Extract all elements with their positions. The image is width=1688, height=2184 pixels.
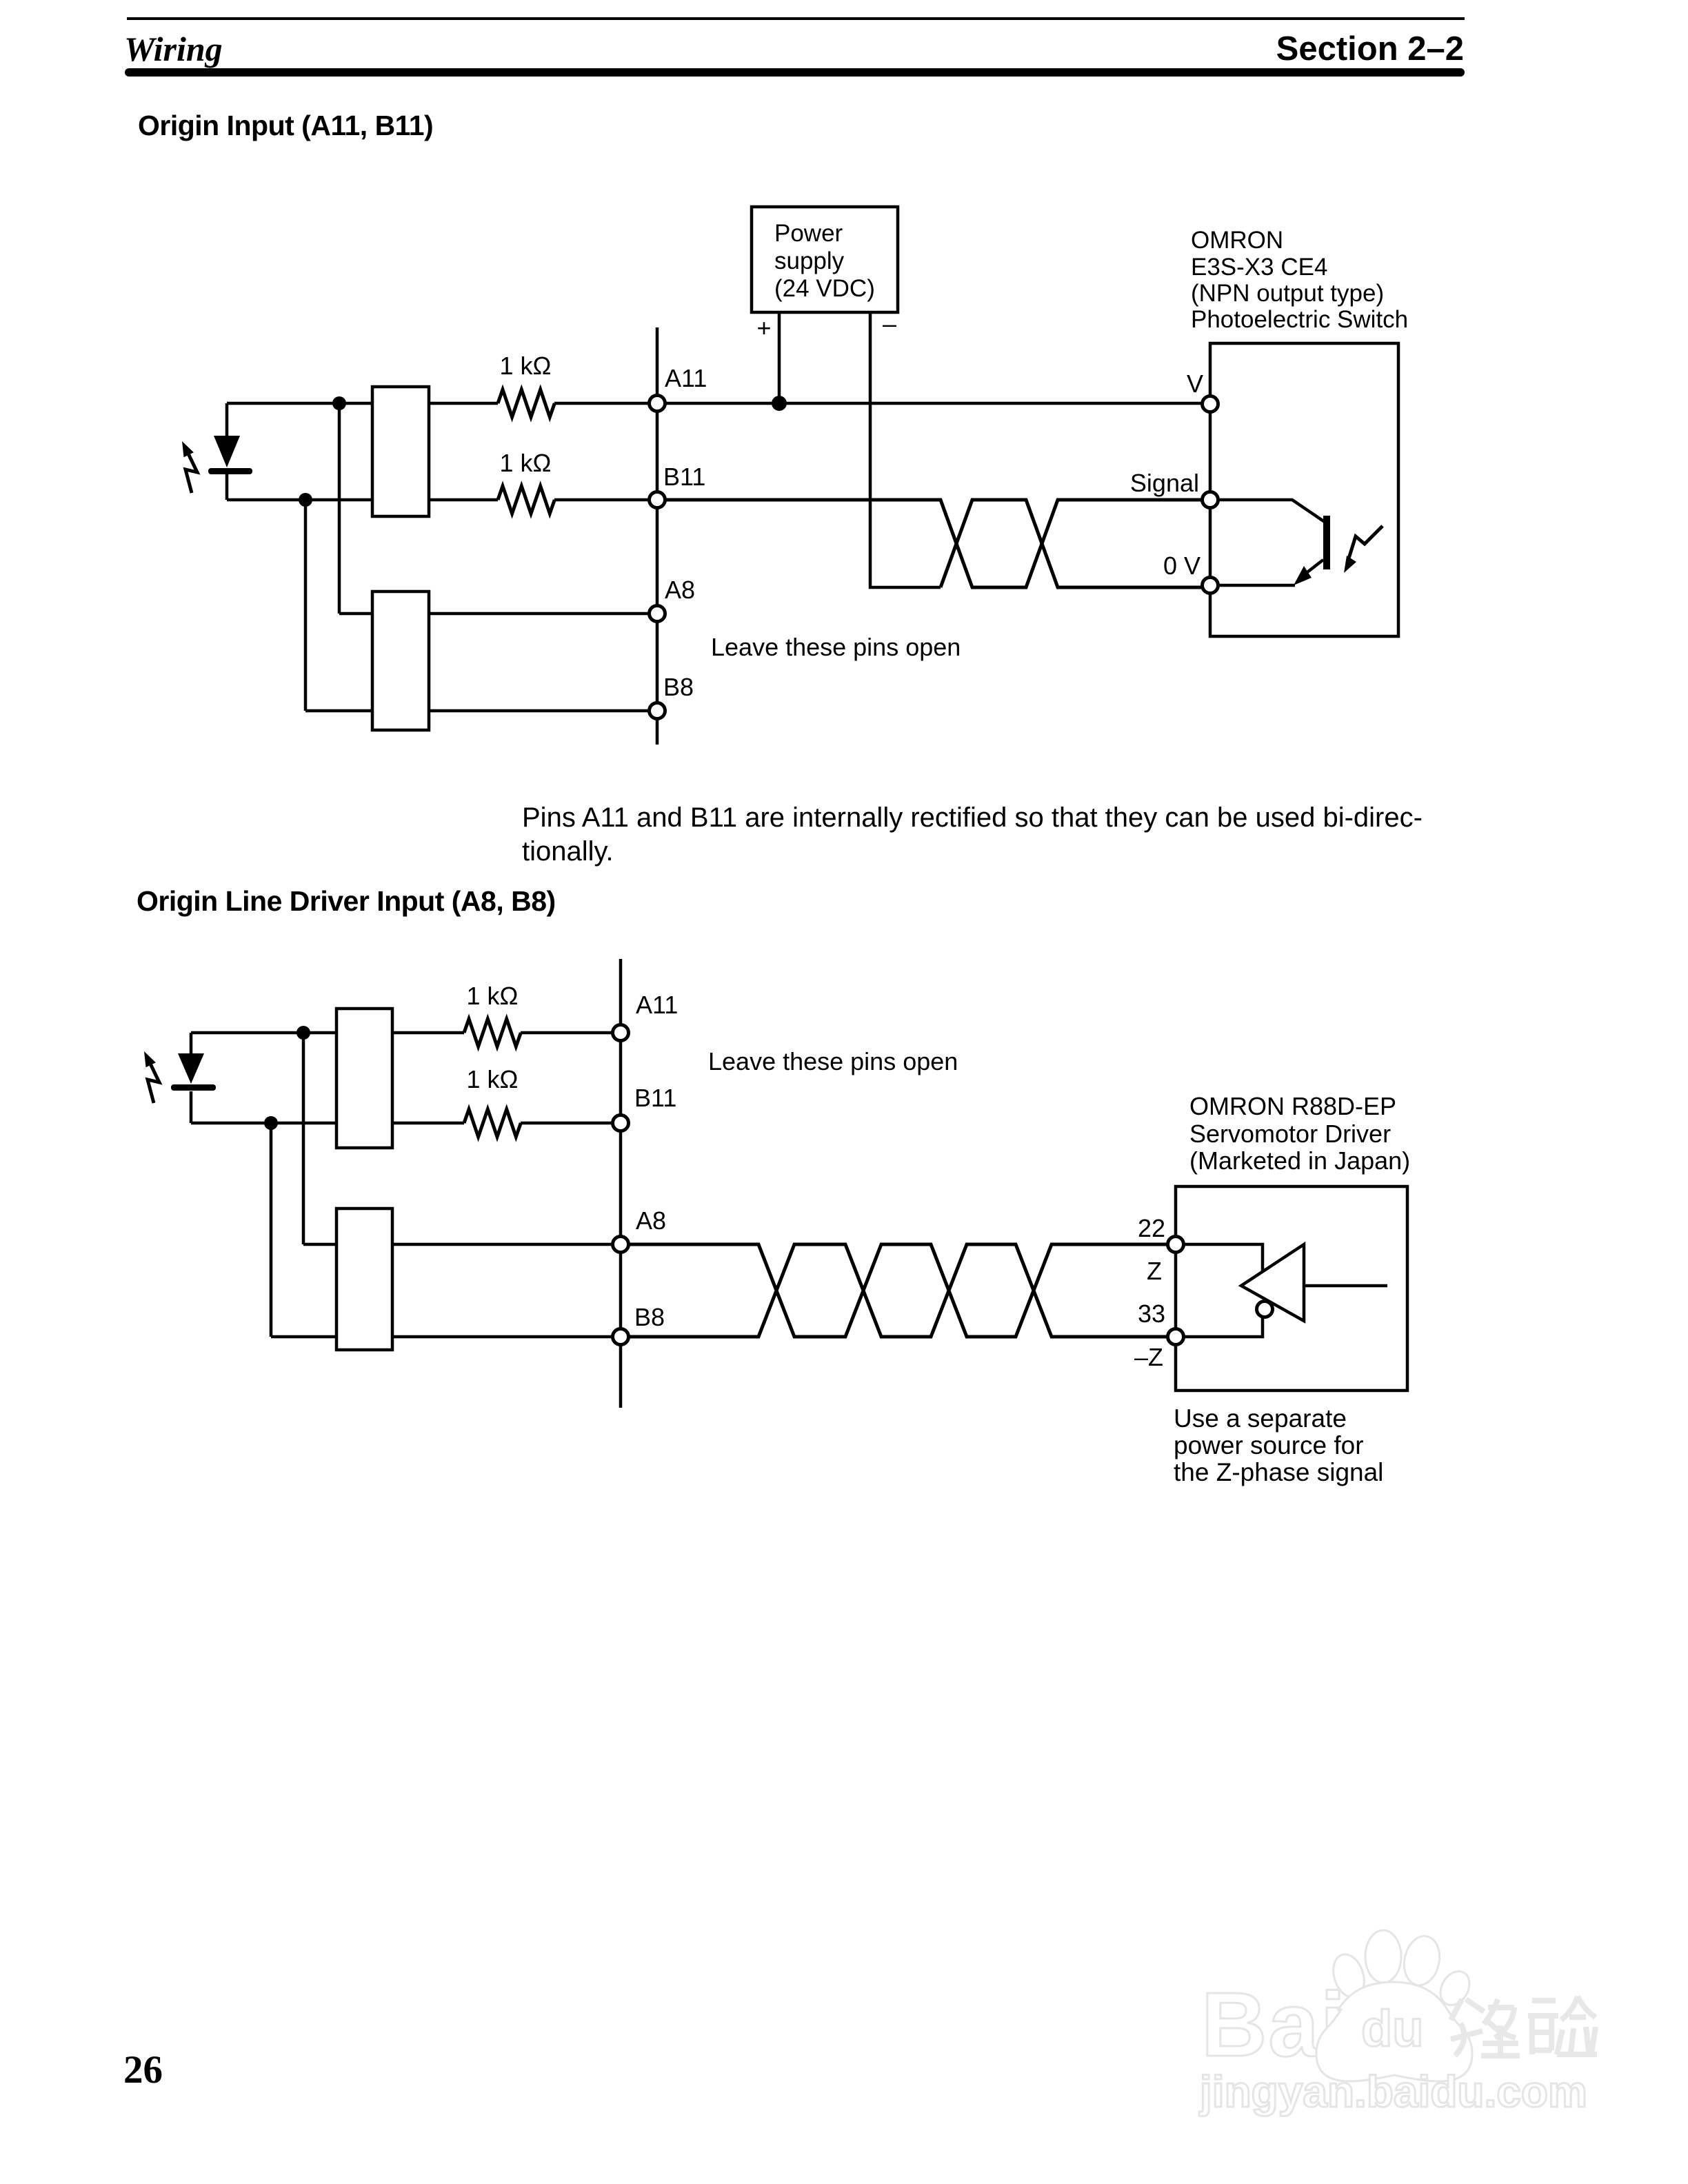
svg-text:Photoelectric Switch: Photoelectric Switch (1191, 306, 1408, 333)
svg-text:supply: supply (774, 247, 845, 274)
svg-text:A11: A11 (665, 364, 707, 392)
svg-text:Wiring: Wiring (124, 30, 223, 68)
svg-text:A8: A8 (665, 576, 695, 604)
svg-text:(NPN output type): (NPN output type) (1191, 280, 1384, 307)
svg-text:B11: B11 (634, 1084, 676, 1112)
svg-text:Signal: Signal (1130, 469, 1199, 497)
svg-text:33: 33 (1138, 1300, 1165, 1328)
svg-text:Power: Power (774, 220, 843, 247)
svg-text:Leave these pins open: Leave these pins open (711, 633, 961, 661)
svg-text:Use a separate: Use a separate (1174, 1404, 1347, 1433)
svg-text:(24 VDC): (24 VDC) (774, 275, 875, 302)
svg-text:1 kΩ: 1 kΩ (467, 982, 519, 1010)
svg-text:A11: A11 (636, 991, 678, 1019)
svg-text:26: 26 (123, 2048, 163, 2092)
svg-text:Pins A11 and B11 are internall: Pins A11 and B11 are internally rectifie… (522, 802, 1423, 833)
svg-text:tionally.: tionally. (522, 836, 614, 867)
svg-text:V: V (1187, 370, 1203, 398)
svg-text:1 kΩ: 1 kΩ (500, 352, 552, 380)
svg-text:+: + (756, 314, 771, 342)
svg-text:22: 22 (1138, 1214, 1165, 1242)
svg-text:E3S-X3 CE4: E3S-X3 CE4 (1191, 254, 1327, 281)
svg-text:OMRON R88D-EP: OMRON R88D-EP (1189, 1092, 1396, 1120)
svg-text:–: – (883, 310, 896, 338)
svg-text:power source for: power source for (1174, 1431, 1364, 1459)
svg-text:Origin Input (A11, B11): Origin Input (A11, B11) (138, 110, 433, 141)
svg-text:B8: B8 (634, 1303, 665, 1331)
svg-text:1 kΩ: 1 kΩ (500, 449, 552, 477)
svg-text:Leave these pins open: Leave these pins open (708, 1047, 958, 1075)
svg-text:jingyan.baidu.com: jingyan.baidu.com (1199, 2067, 1587, 2116)
svg-text:the Z-phase signal: the Z-phase signal (1174, 1458, 1383, 1486)
svg-text:B8: B8 (663, 673, 694, 701)
svg-text:du: du (1361, 2000, 1423, 2057)
svg-text:Section 2–2: Section 2–2 (1276, 30, 1464, 68)
svg-text:Servomotor Driver: Servomotor Driver (1189, 1120, 1391, 1148)
svg-text:B11: B11 (663, 463, 705, 491)
svg-text:OMRON: OMRON (1191, 227, 1283, 254)
svg-text:Z: Z (1147, 1257, 1162, 1285)
svg-text:–Z: –Z (1134, 1343, 1163, 1371)
svg-text:(Marketed in Japan): (Marketed in Japan) (1189, 1146, 1410, 1175)
svg-text:1 kΩ: 1 kΩ (467, 1065, 519, 1093)
svg-text:0 V: 0 V (1163, 552, 1200, 580)
svg-text:A8: A8 (636, 1206, 666, 1235)
svg-text:Origin Line Driver Input (A8,: Origin Line Driver Input (A8, B8) (137, 885, 556, 917)
